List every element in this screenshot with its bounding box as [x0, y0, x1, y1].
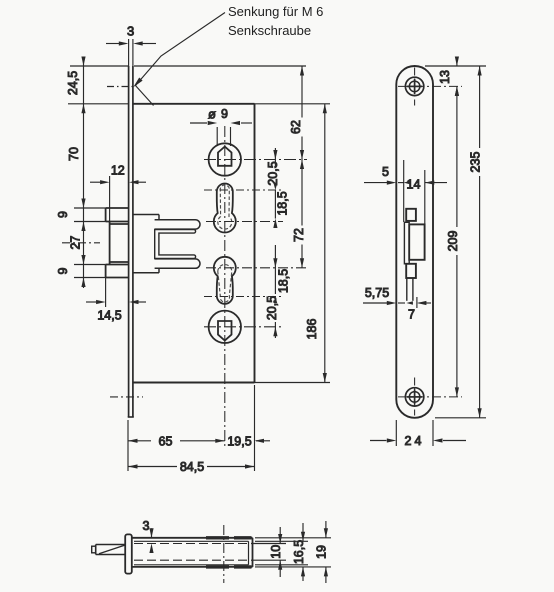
- dim 209 arrows: [455, 86, 459, 397]
- latch head top-view outline: [96, 545, 126, 555]
- hidden line bottom (dashed): [134, 559, 249, 561]
- faceplate edge (left view, vertical strip): [128, 66, 134, 417]
- svg-text:Senkschraube: Senkschraube: [228, 23, 311, 38]
- case outline bottom edge: [132, 566, 253, 568]
- chained dim arrows lower: [273, 258, 277, 336]
- svg-text:13: 13: [438, 70, 452, 84]
- svg-text:24,5: 24,5: [66, 71, 80, 95]
- dim ø9 extension lines: [190, 123, 252, 146]
- extension line body right bottom: [254, 385, 256, 471]
- extension line latch step top (y208): [74, 207, 106, 209]
- dim 3 arrows: [119, 41, 143, 45]
- dim 24 arrows: [387, 438, 443, 442]
- latch tail thin bar top: [133, 215, 159, 220]
- dim 186 line: [324, 104, 326, 383]
- leader arrowhead: [133, 78, 142, 88]
- latch tail rounded bar top: [155, 220, 200, 229]
- svg-text:3: 3: [127, 24, 134, 39]
- case right end inner line: [248, 541, 250, 565]
- chained dim arrows upper: [273, 150, 277, 228]
- latch tail thin bar bottom: [133, 268, 159, 273]
- extension line latch step bottom (y277.5): [74, 277, 106, 279]
- dim 14 right arrow: [425, 181, 435, 185]
- left dim arrows: [81, 57, 85, 288]
- latch cutout upper small rect: [406, 209, 416, 221]
- dim 3 line (bottom view): [151, 528, 153, 538]
- dim 19 arrows: [324, 528, 328, 576]
- dim 14,5 line and arrows: [86, 301, 146, 303]
- extension line plate left bottom: [127, 420, 129, 471]
- svg-text:70: 70: [67, 147, 81, 161]
- keyhole 1 small-circle centerline: [204, 189, 283, 191]
- svg-text:20,5: 20,5: [266, 161, 280, 185]
- keyhole 2 inner profile: [218, 265, 232, 303]
- screw hole bottom horizontal centerline: [398, 396, 462, 398]
- keyhole 1 inner profile: [218, 185, 232, 229]
- dim 62 arrows: [300, 66, 304, 160]
- bottom view vertical centerline: [223, 525, 225, 583]
- dim ø9 arrows: [208, 121, 240, 125]
- dim 65 line: [128, 440, 225, 442]
- keyhole 2 small-circle centerline: [204, 296, 283, 298]
- dim 13 line: [456, 57, 458, 67]
- follower hole 2 (circle): [209, 311, 241, 343]
- dim 62 line: [301, 66, 303, 160]
- hidden line top (dashed): [134, 543, 249, 545]
- svg-text:9: 9: [56, 267, 70, 274]
- keyhole 1 outline: [214, 184, 236, 233]
- extension line plate top right (13/235): [425, 65, 486, 67]
- extension line plate bottom right (235): [435, 417, 486, 419]
- dim 5,75 / 7 line: [363, 302, 431, 304]
- dim 235 arrows: [478, 66, 482, 418]
- dim 5 arrows: [387, 181, 410, 185]
- follower hole 1 centerline: [204, 159, 307, 161]
- leader line to countersink: [135, 13, 225, 106]
- case inner wall top: [134, 540, 249, 542]
- keyhole 2 outline: [214, 257, 236, 304]
- dim 12 extension line: [109, 176, 111, 221]
- screw hole top horizontal centerline: [398, 85, 462, 87]
- latch centerline: [62, 242, 100, 244]
- dim 84,5 line: [128, 466, 255, 468]
- latch tail rounded bar bottom: [155, 259, 200, 268]
- extension line body top left (y103.8): [68, 103, 128, 105]
- screw hole bottom outer: [405, 388, 423, 406]
- svg-text:72: 72: [292, 228, 306, 242]
- vertical centerline of hole column: [224, 126, 226, 446]
- svg-text:Senkung für M 6: Senkung für M 6: [228, 4, 323, 19]
- svg-text:18,5: 18,5: [277, 269, 291, 293]
- chained dim line 20,5/18,5 upper: [274, 148, 276, 168]
- extension line body bottom right (to 186): [255, 382, 331, 384]
- latch cutout narrow tall rect: [404, 222, 409, 263]
- dim 24 extension lines: [396, 420, 433, 446]
- svg-text:7: 7: [408, 308, 415, 322]
- dim 5,75 arrows: [387, 301, 413, 305]
- svg-text:14,5: 14,5: [97, 309, 121, 323]
- screw hole top outer: [405, 77, 423, 95]
- dim 3 (plate thickness) extension lines: [106, 39, 156, 66]
- svg-text:9: 9: [56, 211, 70, 218]
- dim 65 arrows: [128, 439, 225, 443]
- left dimension line: [83, 57, 85, 288]
- extension line plate top right (to 62): [134, 65, 306, 67]
- svg-text:5: 5: [382, 165, 389, 179]
- svg-text:27: 27: [69, 236, 83, 250]
- extension line latch main top (y221.5): [74, 221, 106, 223]
- case inner wall bottom: [134, 564, 249, 566]
- chained dim line 18,5/20,5 lower: [274, 245, 276, 294]
- keyhole 2 big-circle centerline: [206, 267, 307, 269]
- latch head step bottom (9): [106, 265, 129, 278]
- dim 24 line: [370, 440, 466, 442]
- dim 84,5 arrows: [128, 464, 255, 468]
- dim 72 arrows: [300, 160, 304, 268]
- svg-text:209: 209: [446, 231, 460, 252]
- svg-text:5,75: 5,75: [365, 286, 389, 300]
- keyhole 1 big-circle centerline: [206, 221, 283, 223]
- extension lines right (bottom view): [251, 538, 331, 567]
- case outline top edge: [132, 537, 253, 539]
- dim 19 arrow stems: [325, 521, 327, 583]
- faceplate bar (edge-on): [125, 534, 132, 573]
- svg-text:3: 3: [143, 519, 150, 533]
- latch cutout bottom slot: [407, 278, 413, 301]
- dim 3 (bottom view) arrows: [149, 528, 153, 553]
- case right end: [252, 538, 254, 567]
- faceplate outline (stadium): [396, 66, 433, 418]
- dim 235 line: [479, 66, 481, 418]
- svg-text:ø: ø: [208, 107, 216, 122]
- dim 16,5 arrows: [301, 532, 305, 577]
- dim 7 right arrow: [417, 301, 427, 305]
- screw hole bottom vertical centerline: [414, 378, 416, 416]
- svg-text:186: 186: [305, 319, 319, 340]
- latch head main block (27): [110, 222, 129, 265]
- follower hole 1 (circle): [209, 143, 241, 175]
- screw hole top cross: [407, 79, 422, 94]
- extension line plate top (y66): [70, 65, 128, 67]
- plate lower screw-hole centerline: [110, 396, 143, 398]
- svg-text:84,5: 84,5: [180, 460, 204, 474]
- svg-text:16,5: 16,5: [292, 540, 306, 564]
- dim 5 / 14 line: [364, 182, 447, 184]
- latch spring fork: [155, 230, 196, 259]
- screw hole bottom cross: [407, 389, 422, 404]
- latch head front tip: [92, 546, 96, 553]
- dim 72 line: [301, 160, 303, 268]
- svg-text:65: 65: [159, 434, 173, 448]
- screw hole top inner: [409, 81, 420, 92]
- lock body outline: [133, 104, 255, 383]
- dim 7 extension line: [416, 297, 418, 308]
- latch bevel line: [99, 545, 125, 554]
- screw hole top vertical centerline: [414, 68, 416, 106]
- screw hole bottom inner: [409, 392, 420, 403]
- dim 14,5 extension line: [105, 278, 107, 308]
- follower hidden dashes bottom edge: [206, 565, 252, 568]
- latch cutout main rect: [409, 224, 424, 259]
- dim 209 line: [456, 86, 458, 397]
- svg-text:62: 62: [289, 120, 303, 134]
- dim 10 arrow stems: [279, 527, 281, 577]
- svg-text:10: 10: [269, 545, 283, 559]
- svg-text:14: 14: [407, 178, 421, 192]
- follower hole 1 square w/ peak: [218, 147, 232, 166]
- svg-text:12: 12: [111, 164, 125, 178]
- dim 12 line and arrows: [90, 181, 146, 183]
- dim 13 arrows: [455, 57, 459, 96]
- countersink centerline: [107, 86, 133, 88]
- follower hole 2 centerline: [204, 326, 283, 328]
- latch head step top (9): [106, 208, 129, 222]
- svg-text:19: 19: [315, 545, 329, 559]
- svg-text:18,5: 18,5: [276, 191, 290, 215]
- latch cutout lower small rect: [406, 264, 416, 278]
- follower hole 2 square w/ peak: [218, 321, 232, 341]
- extension line body top right (to 186): [255, 103, 331, 105]
- svg-text:19,5: 19,5: [227, 434, 251, 448]
- dim 10 arrows: [278, 534, 282, 570]
- svg-text:20,5: 20,5: [265, 296, 279, 320]
- dim 16,5 arrow stems: [302, 523, 304, 581]
- dim 14 extension lines: [404, 160, 425, 224]
- svg-text:235: 235: [469, 152, 483, 173]
- dim 19,5 line and arrows: [256, 440, 270, 442]
- svg-text:24: 24: [405, 434, 425, 448]
- svg-text:9: 9: [221, 107, 228, 121]
- follower hidden dashes top edge: [206, 536, 252, 539]
- extension line latch main bottom (y264.5): [74, 264, 106, 266]
- dim 186 arrows: [323, 104, 327, 383]
